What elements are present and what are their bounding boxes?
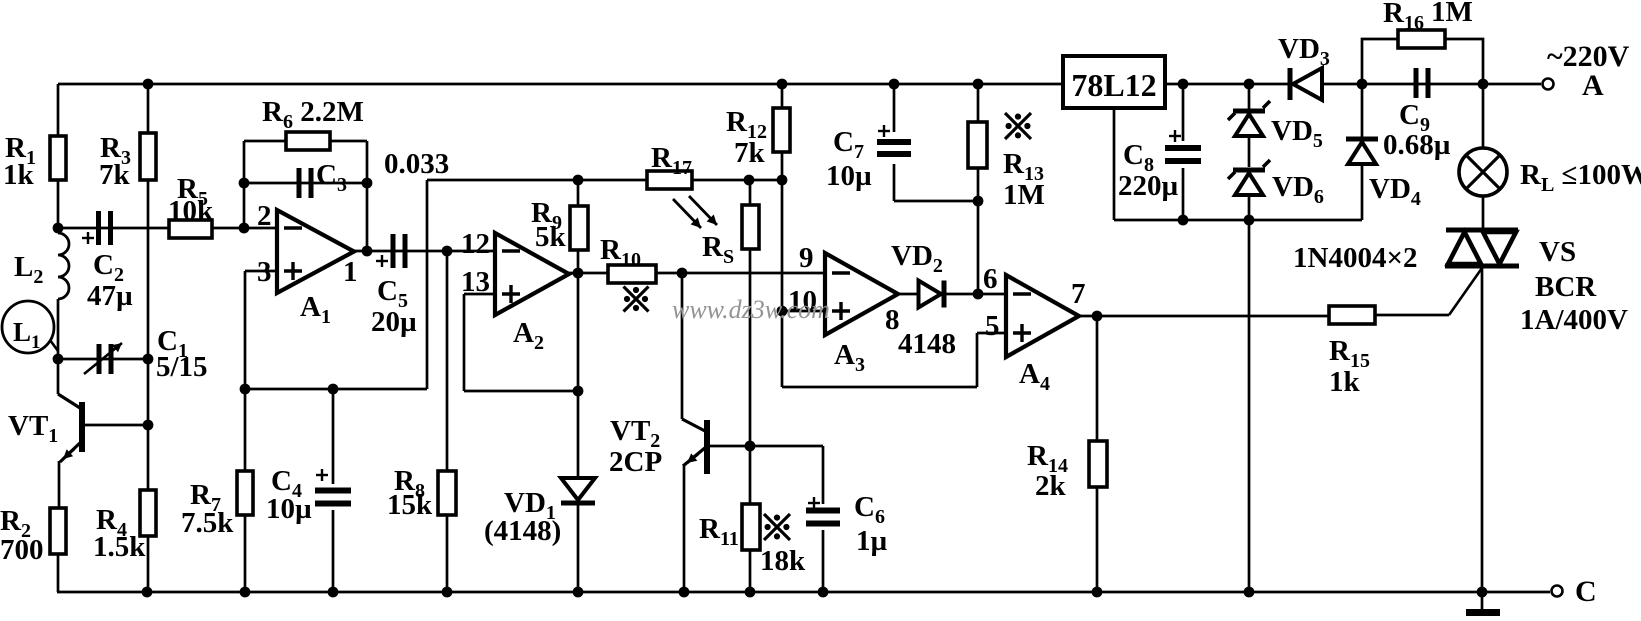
svg-text:1.5k: 1.5k	[93, 531, 146, 563]
svg-text:1k: 1k	[3, 159, 35, 191]
svg-text:R6 2.2M: R6 2.2M	[262, 96, 364, 133]
svg-text:A: A	[1582, 69, 1604, 102]
svg-text:13: 13	[461, 266, 490, 298]
svg-text:BCR: BCR	[1535, 271, 1597, 303]
svg-text:4148: 4148	[898, 328, 956, 360]
svg-text:(4148): (4148)	[484, 515, 561, 547]
svg-text:10k: 10k	[168, 195, 214, 227]
svg-text:1µ: 1µ	[856, 525, 888, 557]
svg-text:1M: 1M	[1003, 179, 1045, 211]
svg-text:1M: 1M	[1431, 0, 1473, 28]
svg-text:1A/400V: 1A/400V	[1520, 304, 1628, 336]
svg-text:0.68µ: 0.68µ	[1383, 129, 1451, 161]
svg-text:15k: 15k	[387, 489, 433, 521]
svg-text:700: 700	[0, 534, 44, 566]
svg-text:7.5k: 7.5k	[181, 507, 234, 539]
svg-text:www.dz3w.com: www.dz3w.com	[672, 295, 830, 324]
svg-text:9: 9	[799, 242, 814, 274]
svg-text:12: 12	[461, 228, 490, 260]
svg-text:5k: 5k	[535, 221, 567, 253]
svg-text:7: 7	[1071, 278, 1086, 310]
svg-text:2k: 2k	[1035, 470, 1067, 502]
svg-text:47µ: 47µ	[87, 280, 133, 312]
svg-text:0.033: 0.033	[384, 148, 449, 180]
svg-text:1: 1	[343, 256, 358, 288]
svg-text:18k: 18k	[760, 545, 806, 577]
svg-text:VS: VS	[1539, 236, 1576, 268]
svg-text:3: 3	[257, 256, 272, 288]
svg-text:1N4004×2: 1N4004×2	[1293, 242, 1417, 274]
svg-text:RL ≤100W: RL ≤100W	[1520, 159, 1641, 196]
svg-text:2: 2	[257, 200, 272, 232]
svg-text:5: 5	[985, 310, 1000, 342]
svg-text:220µ: 220µ	[1118, 170, 1179, 202]
svg-text:7k: 7k	[734, 137, 766, 169]
svg-text:20µ: 20µ	[371, 306, 417, 338]
svg-text:78L12: 78L12	[1071, 67, 1156, 103]
svg-text:7k: 7k	[99, 159, 131, 191]
svg-text:6: 6	[983, 263, 998, 295]
svg-text:10µ: 10µ	[826, 160, 872, 192]
svg-text:C: C	[1575, 575, 1597, 608]
svg-text:5/15: 5/15	[156, 351, 208, 383]
svg-text:2CP: 2CP	[609, 446, 662, 478]
svg-text:10µ: 10µ	[266, 493, 312, 525]
svg-text:1k: 1k	[1329, 366, 1361, 398]
